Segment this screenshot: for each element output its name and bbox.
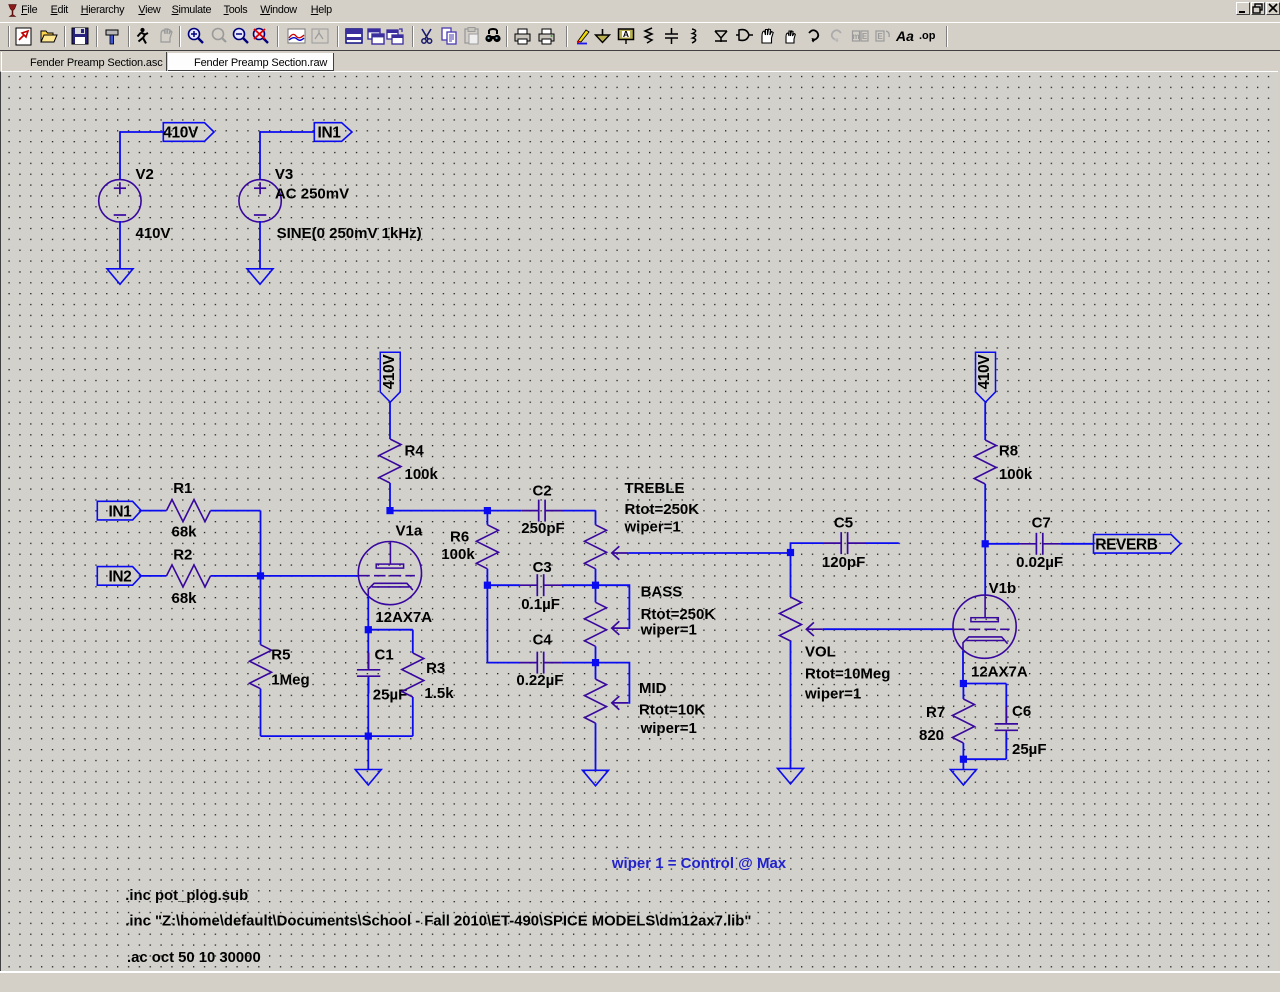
wire V3 top [259,131,261,179]
toolbar icon control panel [106,30,118,44]
svg-text:410V: 410V [381,354,398,390]
potentiometer VOL body [780,597,802,641]
wire flag to R4 [389,402,391,439]
wire R3 to rail [412,697,414,736]
toolbar icon move (hand) [762,29,773,43]
window minimize button [1236,2,1250,15]
capacitor C5 [824,532,865,554]
svg-text:AC 250mV: AC 250mV [275,186,349,203]
application icon [7,3,18,18]
wire treble bottom [595,569,597,585]
triode V1b envelope [953,595,1016,658]
svg-text:R3: R3 [426,660,445,677]
junction VOL top node [787,549,794,556]
toolbar icon zoom full extents [254,29,269,44]
toolbar icon open [41,31,57,42]
svg-text:250pF: 250pF [521,520,564,537]
svg-text:VOL: VOL [805,644,836,661]
wire V3 bottom [259,221,261,269]
wire V1a cathode down [367,596,369,630]
wire down to IN2 node [260,511,262,576]
tab Fender Preamp Section.raw [168,53,334,71]
voltage source V3 body [239,180,281,222]
svg-text:410V: 410V [136,225,171,242]
toolbar icon inductor mode [692,29,696,43]
capacitor C2 [521,500,562,522]
wire R4 to plate node [389,483,391,511]
capacitor C6 [995,707,1018,748]
capacitor C7 [1019,533,1060,555]
toolbar icon new schematic [16,28,31,45]
potentiometer MID body [585,679,607,723]
svg-text:C3: C3 [533,559,552,576]
toolbar icon component mode [736,30,753,41]
toolbar icon zoom out [234,29,249,44]
svg-text:R5: R5 [271,647,290,664]
svg-text:wiper=1: wiper=1 [804,686,861,703]
wiper arrow MID [612,696,628,710]
toolbar icon ground mode [596,29,610,43]
wire to BASS [595,585,597,602]
svg-text:12AX7A: 12AX7A [971,664,1028,681]
wire C4 right [561,662,595,664]
svg-text:R8: R8 [999,443,1018,460]
net flag 410V (top left) [163,123,214,142]
wire R2 to V1a grid [211,575,359,577]
svg-text:BASS: BASS [641,584,683,601]
svg-text:0.1µF: 0.1µF [521,596,560,613]
wire node to VOL [790,553,792,598]
triode V1a cathode [368,583,413,597]
capacitor C3 [520,574,561,596]
wire flag to R8 [984,402,986,440]
svg-text:100k: 100k [441,546,475,563]
wire V3 to IN1 flag [260,131,315,133]
junction bass bottom / mid top [592,659,599,666]
svg-text:Rtot=250K: Rtot=250K [641,606,716,623]
toolbar icon undo [809,30,818,42]
resistor R1 [167,500,211,522]
toolbar icon copy [442,28,456,44]
svg-text:C1: C1 [375,647,394,664]
toolbar icon redo (disabled) [832,30,841,42]
wire corner down to treble [595,511,597,525]
toolbar icon text [895,28,914,44]
wire R5 to ground rail [260,689,262,736]
junction R6 bottom / C3 [484,582,491,589]
wire V2 to 410V flag [120,131,165,133]
wire C6 top [1005,684,1007,722]
svg-text:R1: R1 [173,480,192,497]
ground under V1a stage [355,770,381,786]
wire VOL wiper to V1b grid [823,628,953,630]
svg-text:12AX7A: 12AX7A [375,609,432,626]
svg-text:IN1: IN1 [318,125,342,142]
wire C3 right [561,584,595,586]
junction plate node V1b [982,540,989,547]
junction rail under C1 [365,733,372,740]
wire rail to ground [367,736,369,769]
toolbar icon mirror (disabled) [852,31,868,41]
resistor R2 [167,565,211,587]
toolbar icon cut [422,29,432,43]
svg-text:MID: MID [639,680,667,697]
toolbar icon waveform pane [288,29,305,43]
toolbar icon diode mode [715,31,727,42]
wire cathode node to R3 [368,629,413,631]
wire node to C6 branch [963,683,1006,685]
wire bass wiper return [596,585,630,628]
ground under V2 [107,269,133,285]
wire cathode node to C1 [367,630,369,669]
svg-text:IN1: IN1 [108,503,132,520]
ground under V1b stage [950,770,976,786]
toolbar icon zoom in [189,29,204,44]
toolbar icon spice directive [919,30,936,42]
junction R7 bottom node [960,756,967,763]
toolbar icon tile vertical [368,29,384,44]
toolbar icon halt (disabled hand) [161,29,172,42]
toolbar icon tile horizontal [346,29,362,43]
svg-text:1Meg: 1Meg [271,672,309,689]
toolbar icon zoom back (disabled) [213,29,227,43]
ground under V3 [247,269,273,285]
toolbar icon wire mode (pencil) [577,30,589,44]
potentiometer BASS body [585,602,607,646]
resistor R6 [476,525,498,569]
wire C6 return [963,758,1006,760]
toolbar icon find [485,29,500,42]
wire plate lead V1b [984,544,986,595]
svg-text:C7: C7 [1032,515,1051,532]
ground under VOL [778,768,804,784]
svg-text:0.22µF: 0.22µF [516,672,563,689]
svg-text:0.02µF: 0.02µF [1016,554,1063,571]
wire C6 bottom [1005,733,1007,759]
status bar [0,971,1280,992]
wire V1b cathode down [962,651,964,684]
wire node to C7 [985,543,1019,545]
svg-text:100k: 100k [999,466,1033,483]
wire node to R7 [962,684,964,700]
wire bass bottom [595,646,597,662]
svg-text:.inc "Z:\home\default\Document: .inc "Z:\home\default\Documents\School -… [125,914,751,930]
svg-text:1.5k: 1.5k [424,685,454,702]
svg-text:C4: C4 [533,632,553,649]
junction node IN2/R5 [257,572,264,579]
resistor R7 [952,699,974,743]
wire C7 to REVERB flag [1060,543,1093,545]
svg-text:C5: C5 [834,515,853,532]
svg-text:IN2: IN2 [108,569,131,586]
wire V2 bottom [119,221,121,269]
toolbar icon run [138,28,149,44]
net flag 410V above R4 [380,352,400,402]
capacitor C1 [357,653,380,694]
svg-text:120pF: 120pF [822,554,865,571]
wire R6 to C3 node [486,569,488,585]
wire mid wiper return [596,663,630,703]
net flag IN1 (top) [314,123,352,142]
svg-text:wiper=1: wiper=1 [640,720,697,737]
svg-text:Rtot=10Meg: Rtot=10Meg [805,666,890,683]
svg-text:wiper=1: wiper=1 [624,519,681,536]
toolbar icon rotate (disabled) [876,31,889,41]
wire VOL bottom to ground [790,641,792,770]
window close button [1266,2,1280,15]
triode V1b grid [953,628,1010,630]
junction plate node V1a [386,507,393,514]
svg-text:V1a: V1a [396,523,423,540]
svg-text:25µF: 25µF [1012,741,1047,758]
wiper arrow VOL [806,622,822,636]
wire IN2 to R2 [142,575,167,577]
wire node to R5 [260,576,262,645]
svg-text:68k: 68k [172,524,198,541]
wire to MID [595,663,597,680]
wire C3 left [487,584,520,586]
toolbar icon capacitor mode [665,28,678,44]
wire C4 left [487,662,520,664]
svg-text:V1b: V1b [989,580,1017,597]
toolbar [0,22,1280,49]
triode V1b cathode [963,637,1008,651]
svg-text:.inc pot_plog.sub: .inc pot_plog.sub [125,888,248,904]
toolbar icon resistor mode [645,28,652,43]
window restore button [1251,2,1265,15]
svg-text:410V: 410V [163,125,199,142]
svg-text:C2: C2 [533,483,552,500]
wire IN1 to R1 [142,510,167,512]
net flag REVERB [1094,535,1181,554]
wire V2 top [119,131,121,179]
voltage source V2 body [99,180,141,222]
svg-text:820: 820 [919,727,944,744]
svg-text:REVERB: REVERB [1095,537,1157,554]
svg-text:TREBLE: TREBLE [625,480,685,497]
junction cathode node V1a [365,626,372,633]
svg-text:C6: C6 [1012,703,1031,720]
net flag 410V above R8 [976,352,996,402]
svg-text:68k: 68k [172,590,198,607]
svg-text:R7: R7 [926,704,945,721]
wire to ground V1b [962,759,964,769]
svg-text:R2: R2 [173,547,192,564]
svg-text:R6: R6 [450,529,469,546]
wiper arrow BASS [612,621,628,635]
toolbar icon drag (small hand) [786,31,795,43]
triode V1a grid [358,575,415,577]
toolbar icon print setup [515,29,530,44]
wire treble wiper to VOL [628,552,790,554]
wire R8 to plate node [984,484,986,544]
tab strip [0,50,1280,71]
toolbar icon print [539,29,554,44]
svg-text:410V: 410V [976,354,993,390]
svg-text:25µF: 25µF [373,687,408,704]
svg-text:wiper=1: wiper=1 [640,622,697,639]
triode V1b plate [984,595,986,618]
wire plate node to C2 [390,510,521,512]
potentiometer TREBLE body [585,525,607,569]
wire node to R6 [486,511,488,525]
triode V1a envelope [358,542,421,605]
junction treble bottom / bass top [592,582,599,589]
wire down to R3 [412,630,414,653]
svg-text:.ac oct 50 10 30000: .ac oct 50 10 30000 [127,950,261,966]
junction cathode node V1b [960,680,967,687]
svg-text:SINE(0 250mV 1kHz): SINE(0 250mV 1kHz) [277,225,422,242]
wire ground rail [261,735,413,737]
resistor R3 [402,653,424,697]
net flag IN1 (input) [97,501,141,520]
wire R7 bottom [962,743,964,759]
ground under tone stack [583,770,609,786]
resistor R5 [250,645,272,689]
wire mid bottom to ground [595,723,597,770]
resistor R8 [974,440,996,484]
toolbar icon save [72,28,88,44]
svg-text:V2: V2 [136,166,154,183]
toolbar icon label mode [619,29,634,44]
svg-text:100k: 100k [405,466,439,483]
wire node up to C5 [791,543,824,552]
menu bar [0,0,1280,22]
tab Fender Preamp Section.asc (active) [1,52,167,72]
svg-text:Rtot=10K: Rtot=10K [639,702,705,719]
svg-text:R4: R4 [405,443,425,460]
wiper arrow TREBLE [612,546,628,560]
toolbar icon schematic pane (disabled) [312,29,328,43]
svg-text:Rtot=250K: Rtot=250K [625,501,700,518]
triode V1a plate [389,542,391,565]
junction R6 top [484,507,491,514]
capacitor C4 [520,652,561,674]
toolbar icon paste (disabled) [465,28,478,45]
toolbar icon cascade [387,29,403,44]
wire C5 right end [865,542,899,544]
svg-text:V3: V3 [275,166,293,183]
resistor R4 [379,439,401,483]
svg-text:wiper 1 = Control @ Max: wiper 1 = Control @ Max [611,855,787,872]
wire down to C4 [486,585,488,662]
net flag IN2 (input) [97,567,141,586]
wire R1 to corner [211,510,261,512]
wire C2 to treble top [563,510,596,512]
wire C1 to rail [367,677,369,736]
